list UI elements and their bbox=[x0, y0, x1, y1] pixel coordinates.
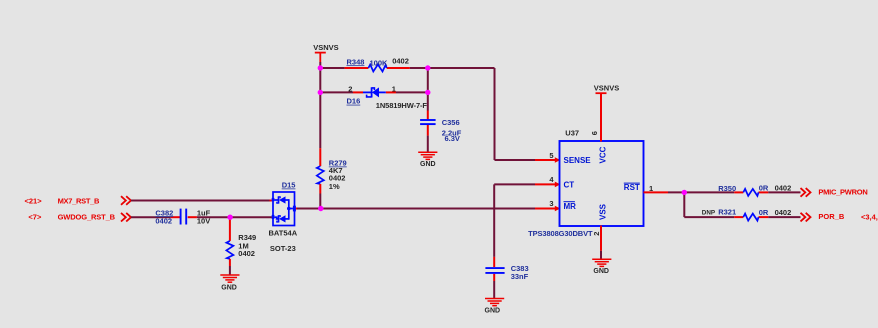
wire: RST pin 1 to junction bbox=[644, 191, 669, 193]
svg-text:SOT-23: SOT-23 bbox=[270, 244, 296, 253]
wire: junction to R321 row bbox=[683, 192, 685, 217]
wire: pin 6 stub bbox=[600, 93, 602, 141]
wire: CT pin to C383 column bbox=[535, 183, 557, 185]
ground below C356 bbox=[418, 152, 437, 159]
ground below C383 bbox=[485, 299, 504, 306]
svg-text:GND: GND bbox=[420, 161, 436, 168]
svg-text:0R: 0R bbox=[759, 208, 769, 217]
svg-text:GND: GND bbox=[485, 307, 501, 314]
svg-text:1N5819HW-7-F: 1N5819HW-7-F bbox=[376, 101, 428, 110]
diode D16 1N5819HW-7-F bbox=[363, 87, 386, 97]
svg-text:GND: GND bbox=[221, 285, 237, 292]
svg-text:<21>: <21> bbox=[25, 196, 43, 205]
wire: vertical x=427.8 to C356 bbox=[427, 68, 429, 111]
svg-text:SENSE: SENSE bbox=[564, 156, 592, 165]
svg-text:10V: 10V bbox=[197, 217, 210, 226]
svg-text:D15: D15 bbox=[282, 181, 296, 190]
svg-text:TPS3808G30DBVT: TPS3808G30DBVT bbox=[528, 229, 593, 238]
junction dots bbox=[318, 65, 323, 70]
resistor R350 0R 0402 bbox=[743, 189, 758, 196]
IC U37 TPS3808G30DBVT bbox=[560, 141, 644, 226]
svg-text:5: 5 bbox=[549, 151, 553, 160]
svg-text:VSNVS: VSNVS bbox=[594, 83, 619, 92]
resistor R279 4K7 0402 1% bbox=[319, 148, 321, 166]
svg-text:VCC: VCC bbox=[599, 146, 608, 163]
svg-text:R348: R348 bbox=[347, 57, 365, 66]
svg-text:GND: GND bbox=[593, 268, 609, 275]
svg-text:<7>: <7> bbox=[28, 213, 42, 222]
svg-text:0402: 0402 bbox=[155, 217, 172, 226]
wire: D16 row y=92.4 bbox=[320, 91, 353, 93]
svg-text:BAT54A: BAT54A bbox=[269, 228, 298, 237]
power symbol VSNVS (left) bbox=[315, 53, 326, 62]
wire: pin 2 stub to ground bbox=[600, 226, 602, 251]
svg-text:MX7_RST_B: MX7_RST_B bbox=[58, 196, 100, 205]
diode D15 BAT54A SOT-23 bbox=[272, 192, 296, 226]
capacitor C382 1uF 10V 0402 bbox=[181, 209, 187, 225]
capacitor C383 33nF bbox=[485, 268, 504, 273]
svg-text:0R: 0R bbox=[759, 183, 769, 192]
svg-text:U37: U37 bbox=[565, 128, 579, 137]
svg-text:0402: 0402 bbox=[238, 249, 255, 258]
off-page connector POR_B bbox=[801, 213, 811, 222]
wire: R348 row y=68 bbox=[320, 67, 344, 69]
svg-text:33nF: 33nF bbox=[511, 272, 529, 281]
svg-text:D16: D16 bbox=[347, 97, 361, 106]
resistor R321 DNP 0R 0402 bbox=[743, 214, 758, 221]
resistor R348 100K 0402 bbox=[368, 65, 386, 72]
svg-text:C356: C356 bbox=[442, 118, 460, 127]
svg-text:VSS: VSS bbox=[599, 203, 608, 220]
svg-text:2: 2 bbox=[348, 85, 352, 94]
svg-text:R350: R350 bbox=[718, 184, 736, 193]
svg-text:DNP: DNP bbox=[702, 209, 715, 216]
svg-text:0402: 0402 bbox=[392, 56, 409, 65]
svg-text:100K: 100K bbox=[370, 58, 389, 67]
svg-text:CT: CT bbox=[564, 180, 575, 189]
svg-text:1%: 1% bbox=[329, 182, 340, 191]
svg-text:VSNVS: VSNVS bbox=[313, 43, 338, 52]
svg-text:0402: 0402 bbox=[775, 208, 792, 217]
capacitor C356 2.2uF 6.3V bbox=[420, 120, 436, 124]
svg-text:PMIC_PWRON: PMIC_PWRON bbox=[818, 187, 867, 196]
svg-text:R321: R321 bbox=[718, 207, 736, 216]
svg-text:6.3V: 6.3V bbox=[445, 134, 460, 143]
svg-text:<3,4,6: <3,4,6 bbox=[861, 213, 878, 222]
off-page connector PMIC_PWRON bbox=[801, 188, 811, 197]
svg-text:3: 3 bbox=[549, 199, 553, 208]
wire: MX7 row y=200.5 bbox=[131, 200, 270, 202]
svg-text:2: 2 bbox=[592, 232, 601, 236]
ground below R349 bbox=[220, 275, 239, 282]
wire: main MR row y=208.5 bbox=[295, 208, 298, 210]
resistor R349 1M 0402 bbox=[229, 217, 231, 241]
svg-text:RST: RST bbox=[624, 183, 640, 192]
svg-text:6: 6 bbox=[590, 131, 599, 135]
svg-text:MR: MR bbox=[564, 202, 577, 211]
wire: top row to SENSE corner bbox=[428, 67, 495, 69]
ground below U37 bbox=[592, 259, 611, 266]
wire: VSNVS column vertical x=320 bbox=[319, 62, 321, 148]
svg-text:POR_B: POR_B bbox=[818, 212, 844, 221]
wire: GWDOG row y=217.2 bbox=[131, 216, 171, 218]
svg-text:0402: 0402 bbox=[775, 183, 792, 192]
svg-text:1: 1 bbox=[392, 85, 396, 94]
svg-text:GWDOG_RST_B: GWDOG_RST_B bbox=[58, 213, 116, 222]
